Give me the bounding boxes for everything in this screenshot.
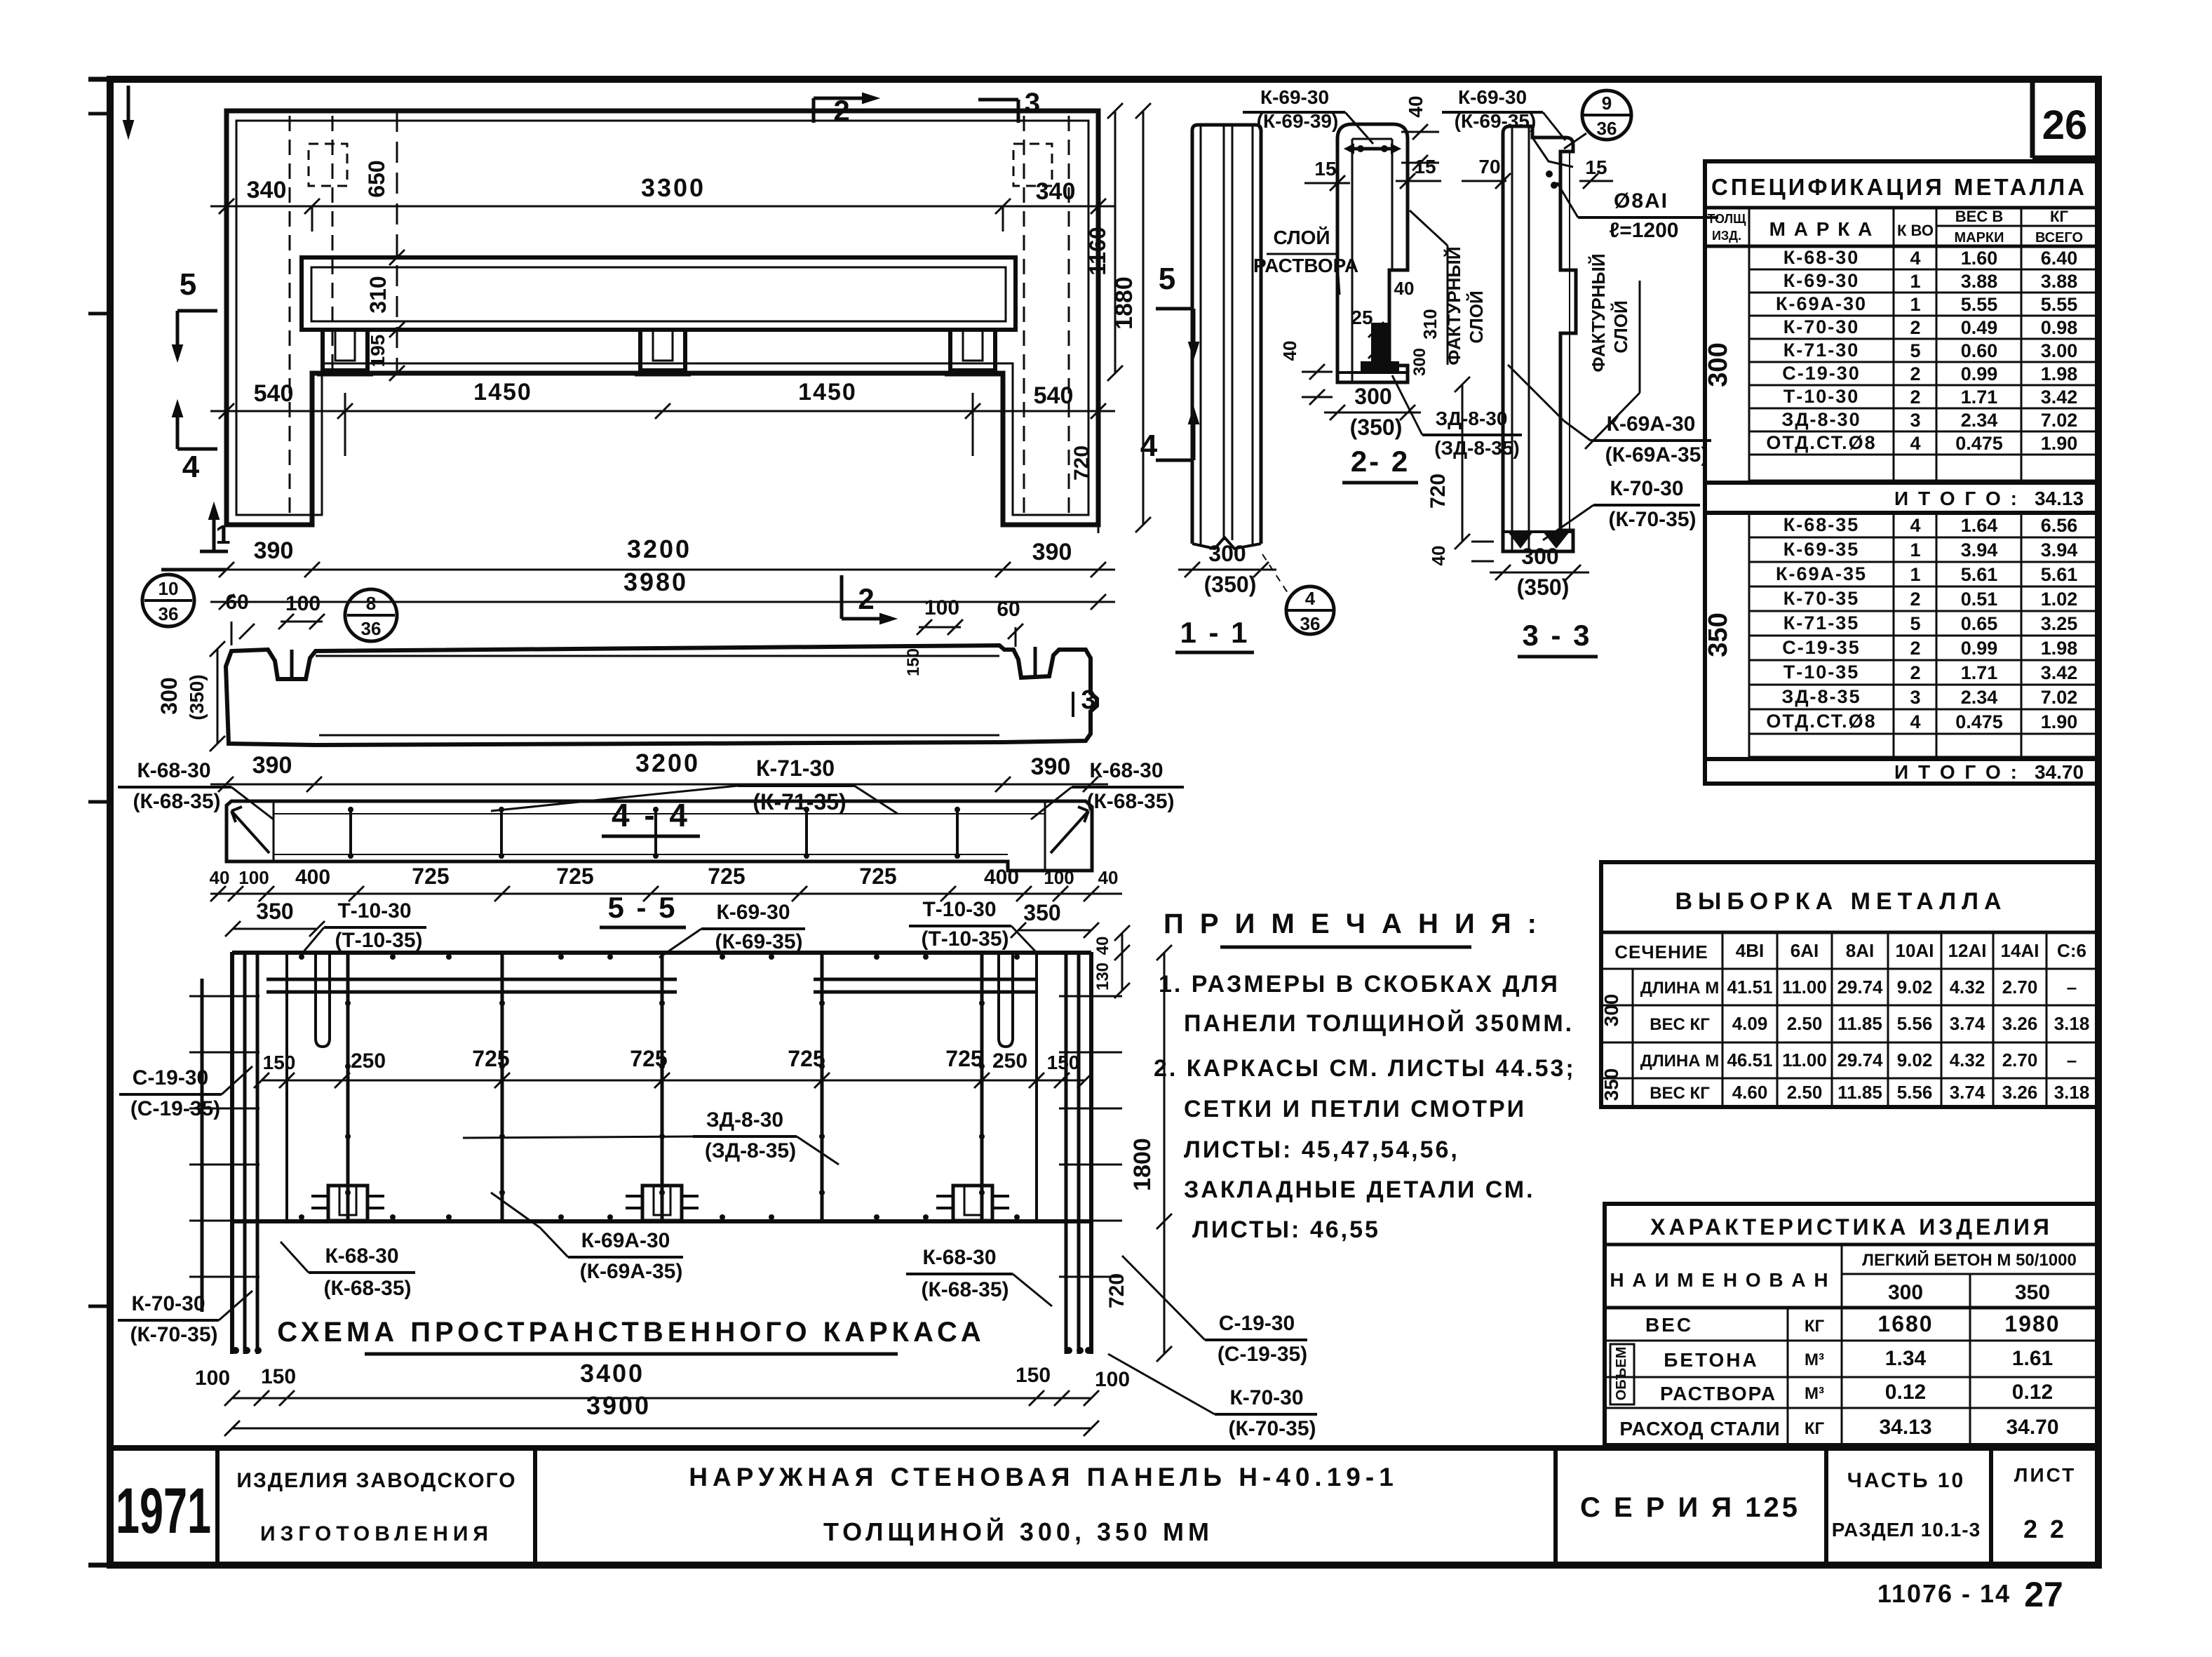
section 4-4 dimension 390/3200/390: [210, 749, 1108, 792]
section mark 4 (left): [173, 401, 217, 484]
svg-text:3.74: 3.74: [1950, 1013, 1985, 1034]
svg-text:ВЫБОРКА МЕТАЛЛА: ВЫБОРКА МЕТАЛЛА: [1675, 888, 2007, 915]
svg-text:СЕЧЕНИЕ: СЕЧЕНИЕ: [1614, 941, 1708, 962]
svg-text:К-68-30: К-68-30: [325, 1245, 398, 1268]
svg-text:725: 725: [412, 864, 449, 889]
svg-text:100: 100: [285, 592, 321, 615]
svg-text:5.56: 5.56: [1897, 1013, 1933, 1034]
svg-text:5 - 5: 5 - 5: [607, 891, 677, 924]
svg-text:3980: 3980: [623, 568, 688, 596]
top leader label K-69-30 (K-69-35) right: [1442, 86, 1565, 140]
svg-text:2: 2: [833, 94, 849, 127]
section 4-4 profile: [226, 645, 1097, 745]
svg-text:3.18: 3.18: [2054, 1082, 2090, 1103]
svg-text:Т-10-30: Т-10-30: [337, 899, 411, 923]
svg-text:5: 5: [1910, 613, 1920, 634]
plan view beam (lintel): [302, 257, 1016, 330]
svg-text:К-68-30: К-68-30: [1783, 247, 1860, 268]
svg-text:26: 26: [2042, 102, 2088, 148]
svg-text:(С-19-35): (С-19-35): [1218, 1343, 1307, 1366]
karkas label K-70-30 bottom right: [1108, 1354, 1317, 1440]
svg-text:0.60: 0.60: [1961, 340, 1998, 361]
label K-70-30 (3-3): [1543, 477, 1700, 540]
svg-text:МАРКИ: МАРКИ: [1954, 230, 2004, 246]
svg-text:К ВО: К ВО: [1897, 222, 1934, 239]
svg-text:40: 40: [1394, 278, 1415, 299]
svg-text:СЛОЙ: СЛОЙ: [1273, 226, 1330, 248]
svg-text:К-71-30: К-71-30: [1783, 340, 1860, 361]
svg-text:36: 36: [159, 603, 179, 624]
svg-text:К-68-35: К-68-35: [1783, 514, 1860, 535]
svg-text:4: 4: [1910, 433, 1920, 454]
karkas lifting loops: [316, 953, 1013, 1047]
svg-text:М³: М³: [1805, 1384, 1824, 1403]
svg-text:К-70-30: К-70-30: [131, 1292, 205, 1315]
svg-text:1980: 1980: [2004, 1311, 2060, 1336]
svg-text:4: 4: [1305, 588, 1316, 609]
svg-text:390: 390: [1032, 539, 1072, 565]
svg-text:350: 350: [1600, 1068, 1622, 1101]
svg-text:1.60: 1.60: [1961, 248, 1998, 269]
итого 34.13 row: [1705, 483, 2097, 513]
svg-text:М А Р К А: М А Р К А: [1769, 218, 1874, 240]
svg-text:3900: 3900: [586, 1391, 651, 1420]
svg-text:9.02: 9.02: [1897, 1049, 1933, 1071]
notes title: [1164, 908, 1541, 947]
svg-text:15: 15: [1314, 158, 1336, 180]
svg-text:С:6: С:6: [2057, 940, 2086, 961]
svg-text:(К-69-39): (К-69-39): [1257, 110, 1339, 132]
svg-text:9: 9: [1602, 93, 1612, 114]
caption СХЕМА ПРОСТРАНСТВЕННОГО КАРКАСА: [277, 1317, 985, 1354]
svg-text:К-70-30: К-70-30: [1610, 477, 1683, 500]
svg-text:34.70: 34.70: [2006, 1416, 2058, 1439]
svg-text:–: –: [2067, 977, 2077, 998]
svg-text:0.51: 0.51: [1961, 589, 1998, 610]
section 5-5 dimension row 40 100 400 725x4 400 100 40: [210, 864, 1122, 901]
svg-text:2.70: 2.70: [2002, 977, 2038, 998]
svg-text:4ВI: 4ВI: [1736, 940, 1764, 961]
svg-text:ВЕС: ВЕС: [1645, 1314, 1693, 1336]
svg-text:1.34: 1.34: [1885, 1347, 1927, 1370]
svg-text:6.56: 6.56: [2041, 515, 2078, 536]
svg-text:0.475: 0.475: [1955, 711, 2003, 732]
svg-text:К-68-30: К-68-30: [922, 1246, 996, 1269]
section 2-2 inner dims 25 40 310 300: [1351, 278, 1441, 376]
svg-text:ТОЛЩИНОЙ 300, 350 ММ: ТОЛЩИНОЙ 300, 350 ММ: [823, 1517, 1213, 1546]
svg-text:300: 300: [1208, 541, 1246, 566]
svg-text:7.02: 7.02: [2041, 410, 2078, 431]
svg-text:ПАНЕЛИ ТОЛЩИНОЙ 350ММ.: ПАНЕЛИ ТОЛЩИНОЙ 350ММ.: [1184, 1009, 1574, 1037]
karkas left column bars: [189, 952, 287, 1354]
svg-text:390: 390: [252, 752, 292, 779]
svg-text:С-19-35: С-19-35: [1782, 637, 1861, 658]
svg-text:11.85: 11.85: [1837, 1082, 1882, 1103]
svg-text:3 - 3: 3 - 3: [1522, 619, 1591, 652]
svg-text:400: 400: [984, 866, 1019, 889]
svg-text:150: 150: [1016, 1364, 1051, 1387]
svg-text:150: 150: [261, 1365, 296, 1388]
specification table (СПЕЦИФИКАЦИЯ МЕТАЛЛА): [1705, 161, 2097, 784]
svg-text:ЗД-8-30: ЗД-8-30: [1436, 408, 1508, 429]
svg-text:29.74: 29.74: [1837, 1049, 1883, 1071]
svg-text:1160: 1160: [1085, 227, 1110, 275]
svg-text:725: 725: [630, 1046, 667, 1071]
section 1-1 dim 300 (350): [1178, 541, 1276, 597]
section 5-5 profile: [227, 801, 1092, 871]
label 1-1: [1175, 616, 1254, 652]
karkas top chord: [232, 953, 1091, 992]
svg-text:0.12: 0.12: [1885, 1381, 1926, 1404]
svg-text:11.00: 11.00: [1782, 977, 1827, 998]
circled mark 8/36: [345, 589, 397, 641]
svg-text:3400: 3400: [580, 1359, 645, 1388]
svg-text:ЗАКЛАДНЫЕ ДЕТАЛИ СМ.: ЗАКЛАДНЫЕ ДЕТАЛИ СМ.: [1184, 1176, 1535, 1203]
title block maker text: [236, 1469, 516, 1545]
karkas inner dim row 150 250 725x4 250 150: [254, 1046, 1093, 1088]
svg-text:(К-70-35): (К-70-35): [1608, 508, 1696, 531]
svg-text:1: 1: [1910, 539, 1920, 561]
svg-text:310: 310: [1419, 309, 1441, 339]
svg-text:КГ: КГ: [2050, 208, 2068, 225]
svg-text:11.00: 11.00: [1782, 1049, 1827, 1071]
svg-text:720: 720: [1427, 474, 1450, 509]
svg-text:350: 350: [2015, 1281, 2050, 1304]
svg-text:ЗД-8-30: ЗД-8-30: [1781, 409, 1861, 430]
svg-text:КГ: КГ: [1805, 1419, 1825, 1438]
svg-text:(К-69-35): (К-69-35): [715, 930, 802, 953]
svg-text:(К-70-35): (К-70-35): [1228, 1417, 1316, 1440]
svg-text:46.51: 46.51: [1727, 1049, 1772, 1071]
svg-text:К-71-30: К-71-30: [756, 756, 835, 781]
svg-text:6.40: 6.40: [2041, 248, 2078, 269]
svg-text:2: 2: [858, 582, 874, 615]
section mark 5 (right): [1156, 262, 1199, 358]
title block part/section: [1832, 1469, 1981, 1541]
svg-text:(350): (350): [186, 674, 208, 720]
svg-text:3.00: 3.00: [2041, 340, 2078, 361]
svg-text:4.32: 4.32: [1950, 1049, 1985, 1071]
svg-text:(К-68-35): (К-68-35): [133, 790, 220, 813]
svg-text:100: 100: [1044, 867, 1074, 888]
karkas top labels 350 / T-10-30 / K-69-30 / T-10-30 / 350: [225, 898, 1099, 958]
svg-text:0.99: 0.99: [1961, 638, 1998, 659]
section 2-2 profile: [1337, 124, 1408, 382]
svg-text:100: 100: [195, 1367, 230, 1390]
svg-text:И Т О Г О :: И Т О Г О :: [1894, 488, 2019, 509]
svg-text:(350): (350): [1517, 575, 1570, 600]
label Ø8AI l=1200: [1557, 182, 1718, 242]
karkas embedded plates (hooks) on bottom chord: [311, 1186, 1009, 1221]
section 3-3 dim 300 (350): [1490, 544, 1589, 600]
section mark 2 (top): [814, 93, 878, 127]
svg-text:К-69-30: К-69-30: [1260, 86, 1329, 108]
svg-text:25: 25: [1351, 307, 1373, 328]
svg-text:1.98: 1.98: [2041, 638, 2078, 659]
svg-text:1: 1: [1910, 294, 1920, 315]
dimension line 3980: [210, 568, 1115, 610]
svg-text:КГ: КГ: [1805, 1317, 1825, 1336]
circled mark 4/36: [1262, 554, 1334, 634]
svg-text:340: 340: [1036, 178, 1076, 205]
svg-text:300: 300: [1521, 544, 1558, 569]
svg-text:1: 1: [215, 521, 230, 550]
svg-text:1: 1: [1910, 271, 1920, 292]
metal selection table (ВЫБОРКА МЕТАЛЛА): [1600, 862, 2097, 1107]
svg-text:725: 725: [708, 864, 745, 889]
svg-text:К-68-30: К-68-30: [137, 759, 210, 782]
svg-text:(Т-10-35): (Т-10-35): [335, 929, 422, 952]
svg-text:ДЛИНА М: ДЛИНА М: [1640, 979, 1720, 998]
svg-text:М³: М³: [1805, 1350, 1824, 1369]
svg-text:1: 1: [1910, 564, 1920, 585]
svg-text:10: 10: [159, 578, 179, 599]
svg-text:ЛИСТ: ЛИСТ: [2014, 1464, 2076, 1486]
svg-text:ИЗД.: ИЗД.: [1712, 229, 1741, 243]
svg-text:3.94: 3.94: [1961, 539, 1998, 561]
svg-text:(К-69-35): (К-69-35): [1455, 110, 1537, 132]
svg-text:(К-69А-35): (К-69А-35): [580, 1260, 683, 1283]
svg-text:ИЗГОТОВЛЕНИЯ: ИЗГОТОВЛЕНИЯ: [260, 1522, 493, 1545]
svg-text:ЛЕГКИЙ БЕТОН М 50/1000: ЛЕГКИЙ БЕТОН М 50/1000: [1862, 1250, 2077, 1270]
svg-text:100: 100: [924, 596, 959, 619]
svg-text:(С-19-35): (С-19-35): [130, 1097, 220, 1120]
section 4-4 small top dims 60 100 / 100 60: [225, 591, 1023, 676]
svg-text:34.13: 34.13: [1879, 1416, 1931, 1439]
svg-text:300: 300: [1888, 1281, 1923, 1304]
svg-text:725: 725: [472, 1046, 509, 1071]
svg-text:(К-68-35): (К-68-35): [1086, 790, 1174, 813]
svg-text:Ø8АI: Ø8АI: [1614, 189, 1668, 213]
svg-text:2.50: 2.50: [1787, 1082, 1823, 1103]
leader label K-68-30 (K-68-35) left: [118, 759, 274, 819]
svg-text:ХАРАКТЕРИСТИКА ИЗДЕЛИЯ: ХАРАКТЕРИСТИКА ИЗДЕЛИЯ: [1650, 1214, 2053, 1240]
karkas bottom dims 100 150 3400 150 100: [195, 1359, 1130, 1406]
svg-text:ЗД-8-30: ЗД-8-30: [706, 1108, 783, 1132]
svg-text:60: 60: [997, 598, 1020, 621]
svg-text:1680: 1680: [1877, 1311, 1933, 1336]
svg-text:К-69А-35: К-69А-35: [1776, 563, 1867, 584]
svg-text:3.88: 3.88: [2041, 271, 2078, 292]
svg-text:15: 15: [1585, 156, 1607, 178]
section 2-2 dim 300 (350): [1324, 384, 1421, 440]
svg-text:3.26: 3.26: [2002, 1082, 2038, 1103]
svg-text:5: 5: [180, 267, 196, 302]
svg-text:27: 27: [2024, 1575, 2063, 1614]
svg-text:РАСХОД СТАЛИ: РАСХОД СТАЛИ: [1619, 1418, 1780, 1440]
svg-text:0.49: 0.49: [1961, 317, 1998, 338]
svg-text:40: 40: [1405, 95, 1427, 117]
svg-text:3.94: 3.94: [2041, 539, 2078, 561]
svg-text:3.25: 3.25: [2041, 613, 2078, 634]
karkas label ZD-8-30: [463, 1108, 839, 1165]
svg-text:300: 300: [156, 677, 182, 714]
label K-69A-30 (3-3): [1508, 365, 1711, 467]
svg-text:5.61: 5.61: [2041, 564, 2078, 585]
svg-text:1450: 1450: [798, 379, 857, 405]
svg-text:540: 540: [254, 380, 294, 407]
leader label K-71-30 (K-71-35): [491, 756, 898, 814]
top leader label K-69-30 (K-69-39) left: [1243, 86, 1373, 144]
svg-text:3.42: 3.42: [2041, 387, 2078, 408]
svg-text:2: 2: [1910, 317, 1920, 338]
svg-text:К-69А-30: К-69А-30: [1607, 412, 1696, 436]
svg-text:720: 720: [1070, 445, 1093, 481]
karkas inner vertical bars: [348, 952, 982, 1221]
svg-text:1880: 1880: [1111, 276, 1138, 330]
svg-text:3.26: 3.26: [2002, 1013, 2038, 1034]
svg-text:4: 4: [1910, 515, 1920, 536]
svg-text:36: 36: [1300, 613, 1321, 634]
karkas label K-68-30 right: [906, 1246, 1052, 1306]
circled mark 9/36: [1564, 90, 1631, 149]
karkas bottom dim 3900: [224, 1391, 1099, 1436]
hidden (dashed) lines in side walls: [290, 116, 1069, 521]
label ФАКТУРНЫЙ СЛОЙ (2-2): [1410, 210, 1487, 365]
svg-text:К-69-30: К-69-30: [716, 901, 790, 924]
section 5-5 stirrups: [348, 807, 960, 859]
svg-text:350: 350: [1023, 900, 1060, 925]
svg-text:7.02: 7.02: [2041, 687, 2078, 708]
svg-text:150: 150: [904, 648, 923, 676]
svg-text:РАЗДЕЛ 10.1-3: РАЗДЕЛ 10.1-3: [1832, 1519, 1981, 1541]
svg-text:725: 725: [859, 864, 896, 889]
svg-text:40: 40: [1098, 867, 1119, 888]
svg-text:130: 130: [1093, 962, 1112, 991]
svg-text:ℓ=1200: ℓ=1200: [1610, 219, 1679, 242]
svg-text:СЛОЙ: СЛОЙ: [1610, 300, 1631, 353]
svg-text:П Р И М Е Ч А Н И Я :: П Р И М Е Ч А Н И Я :: [1164, 908, 1541, 939]
svg-text:ОТД.СТ.Ø8: ОТД.СТ.Ø8: [1766, 432, 1876, 453]
svg-text:2.34: 2.34: [1961, 410, 1998, 431]
right vertical dim 1160: [1085, 103, 1123, 381]
svg-text:К-70-35: К-70-35: [1783, 588, 1860, 609]
svg-text:2. КАРКАСЫ СМ. ЛИСТЫ 44.53;: 2. КАРКАСЫ СМ. ЛИСТЫ 44.53;: [1154, 1055, 1576, 1082]
svg-text:2: 2: [1910, 662, 1920, 683]
svg-text:ТОЛЩ: ТОЛЩ: [1707, 212, 1746, 226]
svg-text:40: 40: [210, 867, 230, 888]
svg-text:К-69-35: К-69-35: [1783, 539, 1860, 560]
section 3-3 profile: [1503, 126, 1576, 551]
section 3-3 top dims 70 / 15: [1462, 156, 1613, 189]
svg-text:К-68-30: К-68-30: [1089, 759, 1163, 782]
karkas label C-19-30 right margin: [1122, 1256, 1307, 1366]
svg-text:400: 400: [295, 866, 330, 889]
svg-text:(ЗД-8-35): (ЗД-8-35): [705, 1139, 796, 1162]
svg-text:1.98: 1.98: [2041, 363, 2078, 384]
svg-text:(ЗД-8-35): (ЗД-8-35): [1434, 437, 1520, 459]
svg-text:34.70: 34.70: [2035, 761, 2084, 783]
svg-text:Н А И М Е Н О В А Н: Н А И М Е Н О В А Н: [1610, 1269, 1829, 1291]
svg-text:СЛОЙ: СЛОЙ: [1466, 290, 1487, 343]
svg-text:ЛИСТЫ: 45,47,54,56,: ЛИСТЫ: 45,47,54,56,: [1184, 1136, 1459, 1163]
karkas label K-70-30 left margin: [118, 1291, 252, 1346]
svg-text:40: 40: [1279, 341, 1300, 361]
label ЗД-8-30 (2-2): [1392, 375, 1522, 459]
svg-text:0.99: 0.99: [1961, 363, 1998, 384]
svg-text:4: 4: [1910, 248, 1920, 269]
section mark 3 (top): [978, 88, 1040, 123]
svg-text:2: 2: [1910, 363, 1920, 384]
svg-text:Т-10-35: Т-10-35: [1783, 662, 1860, 683]
svg-text:1.64: 1.64: [1961, 515, 1998, 536]
karkas right vertical dim 720: [1105, 1273, 1128, 1308]
svg-text:(Т-10-35): (Т-10-35): [921, 927, 1009, 951]
svg-text:350: 350: [1704, 612, 1733, 657]
karkas right vertical dim 1800: [1129, 945, 1172, 1362]
svg-text:Т-10-30: Т-10-30: [1783, 386, 1860, 407]
svg-text:29.74: 29.74: [1837, 977, 1883, 998]
svg-text:725: 725: [788, 1046, 825, 1071]
fold tick marks on left margin: [88, 79, 110, 1565]
svg-text:К-69-30: К-69-30: [1783, 270, 1860, 291]
svg-text:И Т О Г О :: И Т О Г О :: [1894, 761, 2019, 783]
svg-text:СЕТКИ И ПЕТЛИ СМОТРИ: СЕТКИ И ПЕТЛИ СМОТРИ: [1184, 1096, 1526, 1122]
svg-text:4: 4: [182, 450, 200, 484]
svg-text:3300: 3300: [641, 173, 706, 202]
svg-text:1.90: 1.90: [2041, 433, 2078, 454]
karkas label K-69A-30: [491, 1193, 683, 1283]
svg-text:–: –: [2067, 1049, 2077, 1071]
title block year 1971: [116, 1475, 211, 1547]
svg-text:150: 150: [263, 1052, 296, 1073]
svg-text:ЗД-8-35: ЗД-8-35: [1781, 686, 1861, 707]
svg-text:2- 2: 2- 2: [1351, 445, 1410, 478]
svg-text:(350): (350): [1350, 415, 1403, 440]
label 3-3: [1518, 619, 1598, 657]
svg-text:С-19-30: С-19-30: [133, 1066, 208, 1089]
svg-text:250: 250: [351, 1049, 386, 1073]
svg-text:5.61: 5.61: [1961, 564, 1998, 585]
page number box 26: [2032, 83, 2098, 158]
specification rows thickness 300: [1704, 208, 2097, 483]
svg-text:36: 36: [1597, 118, 1617, 139]
title block series: [1580, 1492, 1800, 1523]
label СЛОЙ РАСТВОРА: [1253, 226, 1358, 295]
title block sheet: [2014, 1464, 2076, 1543]
svg-text:Т-10-30: Т-10-30: [922, 898, 996, 921]
svg-text:650: 650: [364, 160, 389, 197]
svg-text:9.02: 9.02: [1897, 977, 1933, 998]
svg-text:3.88: 3.88: [1961, 271, 1998, 292]
svg-text:100: 100: [1095, 1368, 1130, 1391]
svg-text:ВСЕГО: ВСЕГО: [2035, 230, 2083, 246]
svg-text:3: 3: [1910, 410, 1920, 431]
svg-text:60: 60: [225, 591, 248, 614]
notes text: [1154, 971, 1576, 1243]
svg-text:300: 300: [1410, 348, 1429, 376]
dimension line 540 / 1450 / 1450 / 540: [210, 379, 1115, 456]
title block: [110, 1448, 2098, 1565]
leader label K-68-30 (K-68-35) right: [1031, 759, 1184, 819]
svg-text:2.70: 2.70: [2002, 1049, 2038, 1071]
svg-text:К-70-30: К-70-30: [1783, 316, 1860, 337]
svg-text:14АI: 14АI: [2001, 940, 2039, 961]
svg-text:0.98: 0.98: [2041, 317, 2078, 338]
svg-text:195: 195: [367, 335, 389, 368]
svg-text:310: 310: [365, 276, 391, 313]
characteristics table (ХАРАКТЕРИСТИКА ИЗДЕЛИЯ): [1605, 1204, 2097, 1445]
svg-text:1.90: 1.90: [2041, 711, 2078, 732]
svg-text:С-19-30: С-19-30: [1219, 1312, 1295, 1335]
dimension line 390 / 3200 / 390: [161, 535, 1115, 577]
beam hanger loop 3: [945, 330, 1001, 375]
svg-text:2: 2: [1910, 387, 1920, 408]
svg-text:ФАКТУРНЫЙ: ФАКТУРНЫЙ: [1588, 253, 1609, 372]
svg-text:1. РАЗМЕРЫ В СКОБКАХ ДЛЯ: 1. РАЗМЕРЫ В СКОБКАХ ДЛЯ: [1159, 971, 1560, 998]
svg-text:4.09: 4.09: [1732, 1013, 1768, 1034]
section mark 3 (bottom right): [1073, 685, 1096, 717]
